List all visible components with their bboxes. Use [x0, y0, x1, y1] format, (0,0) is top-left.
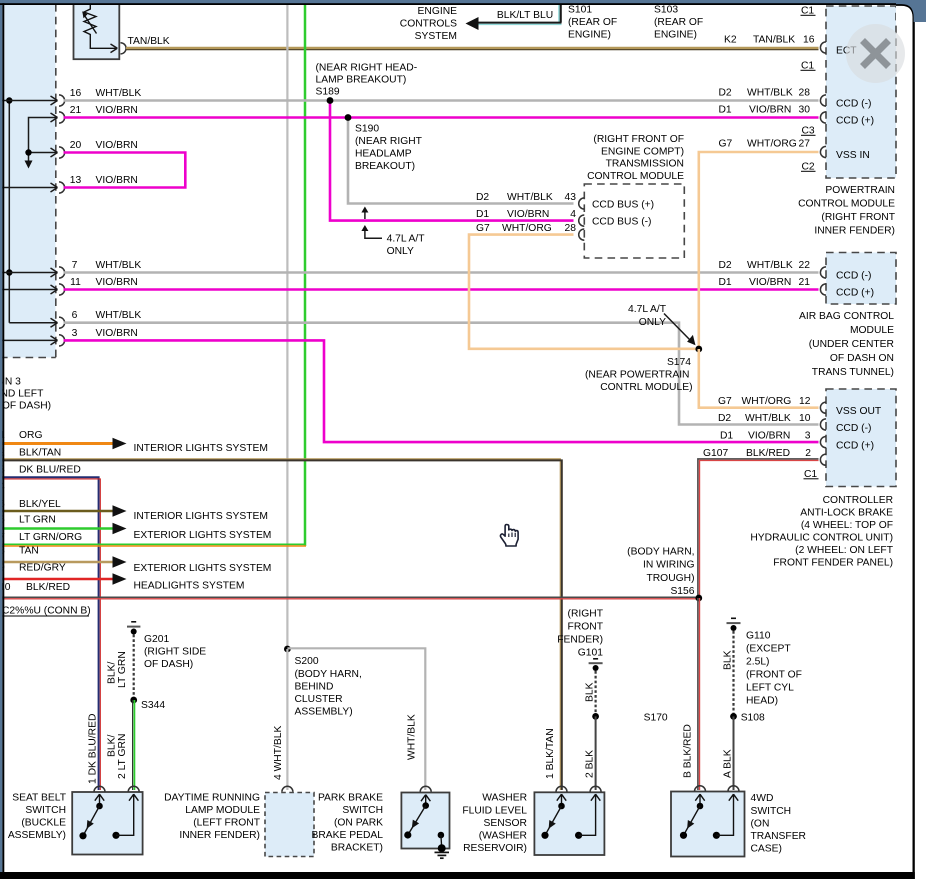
svg-text:CONTROLLER: CONTROLLER — [823, 495, 893, 506]
svg-text:7: 7 — [72, 260, 78, 271]
switch symbol (park brake) — [404, 795, 444, 848]
wire to pin 16 (black, inside connector) — [2, 96, 58, 105]
svg-text:BRACKET): BRACKET) — [331, 843, 383, 854]
svg-text:BREAKOUT): BREAKOUT) — [355, 161, 415, 172]
svg-text:WHT/BLK: WHT/BLK — [96, 310, 142, 321]
svg-text:(FRONT OF: (FRONT OF — [746, 670, 802, 681]
pin 2 arc (CAB) — [820, 454, 826, 465]
svg-text:21: 21 — [799, 277, 811, 288]
svg-text:BLK/: BLK/ — [107, 662, 118, 684]
wire to pin 7 (black, inside connector) — [2, 268, 58, 277]
text SEAT BELT SWITCH (BUCKLE ASSEMBLY) — [8, 793, 67, 842]
svg-text:(WASHER: (WASHER — [479, 831, 527, 842]
pin CCD (+) (PCM) — [820, 112, 874, 127]
connector C1 dashed box (left, partially scrolled off) — [0, 4, 56, 358]
label D2 WHT/BLK 22 (airbag) — [719, 260, 811, 271]
svg-text:(RIGHT SIDE: (RIGHT SIDE — [144, 647, 206, 658]
svg-text:INNER FENDER): INNER FENDER) — [179, 830, 260, 841]
svg-text:(2 WHEEL: ON LEFT: (2 WHEEL: ON LEFT — [795, 545, 894, 556]
svg-text:VIO/BRN: VIO/BRN — [96, 105, 138, 116]
svg-text:ASSEMBLY): ASSEMBLY) — [295, 707, 353, 718]
svg-text:6: 6 — [72, 310, 78, 321]
pin arc 20 — [59, 147, 65, 158]
pin CCD (-) (airbag) — [820, 267, 871, 282]
svg-text:TAN/BLK: TAN/BLK — [753, 35, 795, 46]
text AIR BAG CONTROL MODULE (UNDER CENTER OF DASH ON TRANS TUNNEL) — [799, 311, 894, 378]
svg-text:WHT/BLK: WHT/BLK — [96, 88, 142, 99]
label BLK/ LT GRN (upper) rotated — [107, 651, 129, 688]
connector label C1 (PCM, below ECT) — [801, 61, 816, 72]
svg-text:SYSTEM: SYSTEM — [415, 31, 457, 42]
label 5 BLK/YEL — [0, 499, 61, 510]
svg-text:VIO/BRN: VIO/BRN — [96, 140, 138, 151]
svg-text:2 LT GRN: 2 LT GRN — [117, 734, 128, 779]
wire BLK/RED S156 to 4WD switch pin B — [697, 598, 699, 790]
label K2 TAN/BLK 16 (PCM pin) — [724, 35, 815, 46]
svg-text:CLUSTER: CLUSTER — [295, 694, 343, 705]
svg-text:BLK/: BLK/ — [107, 735, 118, 757]
svg-text:HYDRAULIC CONTROL UNIT): HYDRAULIC CONTROL UNIT) — [750, 533, 893, 544]
wire WHT/BLK S200 to daytime running lamp module pin 4 — [286, 649, 288, 790]
svg-text:CONTROL MODULE: CONTROL MODULE — [798, 199, 895, 210]
svg-text:TRANS TUNNEL): TRANS TUNNEL) — [812, 367, 894, 378]
pin VSS OUT (CAB) — [820, 402, 882, 417]
label D1 VIO/BRN 3 (CAB) — [720, 431, 811, 442]
pin arc (park brake) — [420, 786, 431, 792]
wire BLK/YEL to interior lights system — [2, 505, 127, 516]
label 4.7L A/T ONLY (TCM wires) — [387, 234, 426, 258]
splice S189 — [327, 97, 334, 104]
wire WHT/ORG TCM pin 28 to S174 — [469, 235, 699, 349]
daytime running lamp module box U5 — [265, 793, 314, 857]
wire BLK/LT GRN S344 to seat belt switch pin 2 — [133, 700, 135, 790]
svg-text:CCD (-): CCD (-) — [836, 99, 871, 110]
svg-text:VIO/BRN: VIO/BRN — [507, 209, 549, 220]
svg-text:CCD BUS (+): CCD BUS (+) — [592, 200, 654, 211]
svg-text:CONTROL MODULE: CONTROL MODULE — [587, 171, 684, 182]
svg-text:BLK: BLK — [723, 650, 734, 670]
svg-text:2.5L): 2.5L) — [746, 657, 769, 668]
svg-text:S189: S189 — [316, 86, 340, 97]
text ENGINE CONTROLS SYSTEM (system arrow target) — [400, 6, 457, 42]
svg-text:WHT/BLK: WHT/BLK — [747, 260, 793, 271]
splice S190 — [345, 114, 352, 121]
svg-text:(NEAR RIGHT HEAD-: (NEAR RIGHT HEAD- — [316, 63, 418, 74]
wire BLK dashed G101 to S170 — [594, 671, 596, 714]
label 13 VIO/BRN — [70, 175, 138, 186]
svg-text:CCD (+): CCD (+) — [836, 116, 874, 127]
svg-text:(BODY HARN,: (BODY HARN, — [627, 547, 694, 558]
splice S200 — [284, 646, 291, 653]
svg-text:(UNDER CENTER: (UNDER CENTER — [809, 339, 894, 350]
svg-text:D1: D1 — [719, 277, 732, 288]
svg-text:WASHER: WASHER — [482, 793, 527, 804]
wire DK BLU/RED to seat belt switch — [2, 477, 100, 790]
svg-text:WHT/ORG: WHT/ORG — [502, 223, 552, 234]
seat belt switch box SW1 — [72, 792, 142, 855]
svg-text:G7: G7 — [476, 223, 490, 234]
pin 28 arc (TCM) — [579, 229, 585, 240]
wire LT GRN/ORG joining green bus — [2, 543, 306, 545]
svg-text:CONTRL MODULE): CONTRL MODULE) — [600, 382, 692, 393]
svg-text:ENGINE COMPT): ENGINE COMPT) — [601, 147, 684, 158]
svg-text:D1: D1 — [719, 105, 732, 116]
wire WHT/BLK pin16 to PCM CCD(-) — [64, 99, 819, 102]
splice S170 — [592, 713, 599, 720]
label G107 BLK/RED 2 (CAB) — [703, 448, 811, 459]
svg-text:DK BLU/RED: DK BLU/RED — [19, 465, 81, 476]
label 6 LT GRN — [0, 515, 56, 526]
svg-text:(NEAR RIGHT: (NEAR RIGHT — [355, 136, 423, 147]
svg-text:ORG: ORG — [19, 430, 42, 441]
wire BLK/RED pin10 to S156 — [2, 596, 699, 598]
svg-text:(BODY HARN,: (BODY HARN, — [295, 669, 362, 680]
svg-text:D2: D2 — [718, 413, 731, 424]
svg-text:1 BLK/TAN: 1 BLK/TAN — [545, 728, 556, 779]
wire VIO/BRN pin21 to PCM CCD(+) — [64, 116, 819, 119]
svg-text:D2: D2 — [476, 192, 489, 203]
svg-text:BLK: BLK — [585, 682, 596, 702]
svg-text:S101: S101 — [568, 5, 592, 16]
text DAYTIME RUNNING LAMP MODULE (LEFT FRONT INNER FENDER) — [164, 793, 261, 842]
text 4WD SWITCH (ON TRANSFER CASE) — [751, 793, 807, 855]
svg-text:K2: K2 — [724, 35, 737, 46]
svg-text:TRANSFER: TRANSFER — [751, 831, 807, 842]
pin arc 3 — [59, 335, 65, 346]
svg-text:D2: D2 — [719, 88, 732, 99]
svg-text:ENGINE): ENGINE) — [568, 30, 611, 41]
svg-text:A BLK: A BLK — [723, 749, 734, 778]
svg-text:TAN/BLK: TAN/BLK — [128, 36, 170, 47]
controller anti-lock brake box U4 — [826, 389, 896, 487]
wire RED/GRY to headlights system — [2, 573, 127, 584]
pin CCD BUS (-) (TCM) — [579, 215, 652, 228]
pin arc 1 (washer) — [556, 786, 567, 792]
svg-text:27: 27 — [799, 139, 811, 150]
svg-text:BLK/YEL: BLK/YEL — [19, 499, 61, 510]
svg-text:FRONT FENDER PANEL): FRONT FENDER PANEL) — [773, 558, 893, 569]
wire WHT/BLK pin7 to airbag CCD(-) — [64, 271, 819, 274]
wire WHT/BLK S200 branch to park brake switch — [287, 648, 425, 790]
label D1 VIO/BRN 30 (PCM) — [719, 105, 811, 116]
label 7 LT GRN/ORG — [0, 532, 82, 543]
svg-text:21: 21 — [70, 105, 82, 116]
junction dot at pin 7 feed — [6, 269, 12, 275]
svg-text:VIO/BRN: VIO/BRN — [749, 105, 791, 116]
svg-text:1 DK BLU/RED: 1 DK BLU/RED — [88, 714, 99, 784]
svg-text:3: 3 — [805, 431, 811, 442]
svg-text:ENGINE): ENGINE) — [654, 30, 697, 41]
wire BLK S170 to washer sensor pin 2 — [595, 716, 597, 790]
svg-text:4.7L A/T: 4.7L A/T — [387, 234, 426, 245]
text (RIGHT FRONT OF ENGINE COMPT) TRANSMISSION CONTROL MODULE — [587, 134, 684, 182]
svg-text:G201: G201 — [144, 634, 169, 645]
ground label G101 (RIGHT FRONT FENDER) — [557, 609, 603, 659]
svg-text:IN WIRING: IN WIRING — [643, 560, 694, 571]
arrow to engine controls system — [466, 17, 479, 30]
text PARK BRAKE SWITCH (ON PARK BRAKE PEDAL BRACKET) — [311, 793, 383, 854]
ground G101 symbol — [589, 659, 603, 671]
label D2 WHT/BLK 28 (PCM) — [719, 88, 811, 99]
svg-text:RESERVOIR): RESERVOIR) — [463, 843, 527, 854]
svg-text:BLK/TAN: BLK/TAN — [19, 447, 61, 458]
wire VIO/BRN from S189 down to TCM CCD BUS(-) — [330, 101, 574, 221]
label 4.7L A/T ONLY (S174) with diagonal arrow — [628, 304, 695, 345]
svg-text:VIO/BRN: VIO/BRN — [96, 328, 138, 339]
splice label S103 (REAR OF ENGINE) — [654, 5, 703, 41]
svg-text:FLUID LEVEL: FLUID LEVEL — [462, 806, 527, 817]
pin arc at resistor box output — [121, 43, 127, 54]
4WD switch box SW4 — [671, 792, 745, 857]
svg-text:S108: S108 — [741, 713, 765, 724]
wire VIO/BRN pin3 to CAB CCD(+) — [64, 340, 819, 442]
svg-text:D1: D1 — [720, 431, 733, 442]
svg-text:D2: D2 — [719, 260, 732, 271]
svg-text:CCD (-): CCD (-) — [836, 423, 871, 434]
label 6 WHT/BLK — [72, 310, 142, 321]
svg-text:TRANSMISSION: TRANSMISSION — [606, 159, 684, 170]
splice label S190 text — [355, 124, 423, 173]
svg-text:ONLY: ONLY — [639, 317, 666, 328]
svg-text:VSS IN: VSS IN — [836, 150, 870, 161]
ground G110 symbol — [727, 618, 741, 631]
svg-text:4: 4 — [570, 209, 576, 220]
text POWERTRAIN CONTROL MODULE (RIGHT FRONT INNER FENDER) — [798, 185, 896, 237]
splice label S101 (REAR OF ENGINE) — [568, 5, 617, 41]
svg-text:ANTI-LOCK BRAKE: ANTI-LOCK BRAKE — [800, 508, 893, 519]
svg-text:(NEAR POWERTRAIN: (NEAR POWERTRAIN — [585, 370, 690, 381]
svg-text:G110: G110 — [746, 631, 771, 642]
svg-text:POWERTRAIN: POWERTRAIN — [825, 185, 895, 196]
wire WHT/BLK from S190 down to TCM CCD BUS(+) — [348, 118, 574, 204]
svg-text:VIO/BRN: VIO/BRN — [749, 277, 791, 288]
svg-text:SWITCH: SWITCH — [25, 805, 66, 816]
pin arc 2 (washer) — [590, 786, 601, 792]
svg-text:HEAD): HEAD) — [746, 696, 778, 707]
svg-text:CCD (-): CCD (-) — [836, 271, 871, 282]
wire WHT/BLK pin6 to CAB CCD(-) — [64, 323, 819, 425]
svg-text:FRONT: FRONT — [568, 622, 604, 633]
svg-text:BLK/RED: BLK/RED — [746, 448, 790, 459]
svg-text:BEHIND: BEHIND — [295, 682, 334, 693]
wire: long vertical WHT/BLK bus to S200 — [286, 4, 288, 649]
pin arc 13 — [59, 182, 65, 193]
wire VIO/BRN pin11 to airbag CCD(+) — [64, 288, 819, 291]
svg-text:S156: S156 — [670, 586, 694, 597]
svg-text:CCD BUS (-): CCD BUS (-) — [592, 217, 652, 228]
label 9 RED/GRY — [0, 563, 66, 574]
svg-text:(RIGHT FRONT: (RIGHT FRONT — [821, 212, 895, 223]
wire VIO/BRN jumper pins 20-13 — [64, 153, 186, 188]
svg-text:S170: S170 — [644, 713, 668, 724]
wire TAN/BLK from sensor to PCM ECT pin K2 — [126, 48, 819, 50]
svg-text:(BEHIND LEFT: (BEHIND LEFT — [0, 389, 44, 400]
text fragment connector (BEHIND LEFT SIDE OF DASH) cut off at left — [0, 377, 51, 412]
svg-text:WHT/BLK: WHT/BLK — [507, 192, 553, 203]
label G7 WHT/ORG 28 (TCM) — [476, 223, 576, 234]
svg-text:HEADLIGHTS SYSTEM: HEADLIGHTS SYSTEM — [134, 581, 245, 592]
svg-text:G107: G107 — [703, 448, 728, 459]
label D2 WHT/BLK 10 (CAB) — [718, 413, 811, 424]
splice S108 — [730, 713, 737, 720]
svg-text:HEADLAMP: HEADLAMP — [355, 149, 412, 160]
svg-text:PARK BRAKE: PARK BRAKE — [318, 793, 383, 804]
switch symbol (washer) — [541, 794, 600, 839]
svg-text:(EXCEPT: (EXCEPT — [746, 644, 791, 655]
svg-text:20: 20 — [70, 140, 82, 151]
svg-text:LT GRN: LT GRN — [19, 515, 56, 526]
svg-text:S200: S200 — [295, 656, 319, 667]
svg-text:(REAR OF: (REAR OF — [568, 17, 617, 28]
svg-text:(BUCKLE: (BUCKLE — [21, 818, 66, 829]
label 3 DK BLU/RED — [0, 465, 81, 476]
svg-text:CCD (+): CCD (+) — [836, 441, 874, 452]
splice S174 — [695, 346, 702, 353]
svg-text:AIR BAG CONTROL: AIR BAG CONTROL — [799, 311, 894, 322]
label 2 BLK/ LT GRN (lower) rotated — [107, 734, 129, 779]
powertrain control module box U1 — [826, 6, 896, 178]
pin CCD (+) (airbag) — [820, 284, 874, 299]
label 16 WHT/BLK — [70, 88, 142, 99]
svg-text:LAMP BREAKOUT): LAMP BREAKOUT) — [316, 75, 407, 86]
svg-text:VIO/BRN: VIO/BRN — [96, 175, 138, 186]
label 20 VIO/BRN — [70, 140, 138, 151]
svg-text:CASE): CASE) — [751, 844, 782, 855]
svg-text:SWITCH: SWITCH — [751, 806, 792, 817]
svg-text:BRAKE PEDAL: BRAKE PEDAL — [311, 830, 383, 841]
svg-text:S190: S190 — [355, 124, 379, 135]
svg-text:CONTROLS: CONTROLS — [400, 19, 457, 30]
svg-text:G7: G7 — [719, 139, 733, 150]
svg-text:G7: G7 — [718, 396, 732, 407]
wire jumper pins 21-20 with down arrow — [25, 113, 58, 169]
svg-text:S174: S174 — [667, 357, 691, 368]
wire ORG to interior lights system — [2, 438, 127, 449]
pin arc B (4WD) — [695, 786, 706, 792]
svg-text:C2%%U (CONN B): C2%%U (CONN B) — [2, 606, 91, 617]
wire BLK/LT BLU to engine controls system — [477, 4, 562, 24]
arrow pointing at WHT/BLK 4.7L wire — [361, 207, 368, 220]
svg-text:WHT/ORG: WHT/ORG — [742, 396, 792, 407]
svg-text:(ON PARK: (ON PARK — [334, 818, 383, 829]
svg-text:BLK/RED: BLK/RED — [26, 582, 70, 593]
svg-text:G101: G101 — [578, 648, 603, 659]
wire to pin 13 (black, inside connector) — [2, 183, 58, 192]
mouse cursor (pointer hand) — [500, 525, 518, 547]
label 21 VIO/BRN — [70, 105, 138, 116]
wire to pin 11 (black, inside connector) — [2, 285, 58, 294]
svg-text:MODULE: MODULE — [850, 325, 894, 336]
svg-text:RED/GRY: RED/GRY — [19, 563, 66, 574]
svg-text:INTERIOR LIGHTS SYSTEM: INTERIOR LIGHTS SYSTEM — [134, 511, 268, 522]
ground at park brake switch — [435, 844, 450, 858]
svg-text:4 WHT/BLK: 4 WHT/BLK — [273, 726, 284, 780]
svg-text:VIO/BRN: VIO/BRN — [748, 431, 790, 442]
svg-text:ENGINE: ENGINE — [418, 6, 458, 17]
svg-text:ASSEMBLY): ASSEMBLY) — [8, 830, 66, 841]
arrow pointing at VIO/BRN 4.7L wire with label lead — [361, 225, 382, 238]
svg-text:22: 22 — [799, 260, 811, 271]
label 10 BLK/RED — [0, 582, 70, 593]
ground label G110 (EXCEPT 2.5L) (FRONT OF LEFT CYL HEAD) — [746, 631, 802, 707]
label 2 BLK/TAN — [0, 447, 61, 458]
label D2 WHT/BLK 43 (TCM) — [476, 192, 576, 203]
svg-text:S103: S103 — [654, 5, 678, 16]
label D1 VIO/BRN 21 (airbag) — [719, 277, 811, 288]
wire LT GRN to exterior lights system — [2, 523, 127, 534]
viewer frame: left connector area fill — [5, 5, 56, 358]
label G7 WHT/ORG 27 (PCM VSS IN) — [719, 139, 811, 150]
svg-text:OF DASH): OF DASH) — [144, 659, 193, 670]
svg-text:(LEFT FRONT: (LEFT FRONT — [193, 818, 260, 829]
pin arc A (4WD) — [728, 786, 739, 792]
svg-text:3: 3 — [72, 328, 78, 339]
resistor box (sensor, top-left) — [74, 2, 120, 59]
svg-text:16: 16 — [803, 35, 815, 46]
ground label G201 (RIGHT SIDE OF DASH) — [144, 634, 206, 670]
wire to pin 6 (black, inside connector) — [9, 318, 57, 327]
svg-text:WHT/ORG: WHT/ORG — [747, 139, 797, 150]
svg-text:(RIGHT FRONT OF: (RIGHT FRONT OF — [593, 134, 684, 145]
svg-text:(RIGHT: (RIGHT — [568, 609, 604, 620]
label G7 WHT/ORG 12 (CAB) — [718, 396, 811, 407]
svg-text:LAMP MODULE: LAMP MODULE — [185, 805, 260, 816]
label D1 VIO/BRN 4 (TCM) — [476, 209, 576, 220]
park brake switch box SW2 — [401, 793, 449, 849]
svg-text:TROUGH): TROUGH) — [646, 573, 694, 584]
wire WHT/ORG S174 to CAB VSS OUT — [699, 349, 819, 408]
pin arc 6 — [59, 317, 65, 328]
wire BLK/LT GRN dashed G201 to S344 — [133, 635, 135, 699]
pin CCD (-) (CAB) — [820, 419, 871, 434]
svg-text:LEFT CYL: LEFT CYL — [746, 683, 794, 694]
label 1 ORG — [0, 430, 42, 441]
splice S156 — [695, 595, 702, 602]
svg-text:FENDER): FENDER) — [557, 635, 603, 646]
svg-text:(4 WHEEL: TOP OF: (4 WHEEL: TOP OF — [801, 520, 893, 531]
svg-text:WHT/BLK: WHT/BLK — [407, 714, 418, 760]
connector label C3 (PCM) — [801, 126, 816, 137]
svg-text:ONLY: ONLY — [387, 246, 414, 257]
connector label C1 (PCM, above ECT) — [801, 6, 816, 17]
svg-text:DAYTIME RUNNING: DAYTIME RUNNING — [164, 793, 260, 804]
svg-text:(REAR OF: (REAR OF — [654, 17, 703, 28]
text CONTROLLER ANTI-LOCK BRAKE — [750, 495, 893, 569]
svg-text:VIO/BRN: VIO/BRN — [96, 277, 138, 288]
pin arc 11 — [59, 284, 65, 295]
svg-text:WHT/BLK: WHT/BLK — [745, 413, 791, 424]
pin VSS IN (PCM) — [820, 146, 869, 161]
svg-text:4.7L A/T: 4.7L A/T — [628, 304, 667, 315]
pin CCD (-) (PCM) — [820, 95, 871, 110]
label 8 TAN — [0, 546, 39, 557]
svg-text:EXTERIOR LIGHTS SYSTEM: EXTERIOR LIGHTS SYSTEM — [134, 563, 272, 574]
label 11 VIO/BRN — [70, 277, 138, 288]
splice S344 — [130, 697, 137, 704]
svg-text:SENSOR: SENSOR — [484, 818, 528, 829]
pin arc 21 — [59, 112, 65, 123]
junction dot at pin 16 feed — [6, 97, 12, 103]
switch symbol (4WD) — [680, 794, 738, 839]
splice label S156 text (BODY HARN, IN WIRING TROUGH) — [627, 547, 695, 598]
svg-text:SIDE OF DASH): SIDE OF DASH) — [0, 401, 51, 412]
splice label S189 text — [316, 63, 418, 98]
svg-text:INNER FENDER): INNER FENDER) — [814, 226, 895, 237]
label 7 WHT/BLK — [72, 260, 142, 271]
svg-text:OF DASH ON: OF DASH ON — [830, 353, 894, 364]
svg-text:LT GRN: LT GRN — [117, 651, 128, 688]
pin arc 16 — [59, 95, 65, 106]
